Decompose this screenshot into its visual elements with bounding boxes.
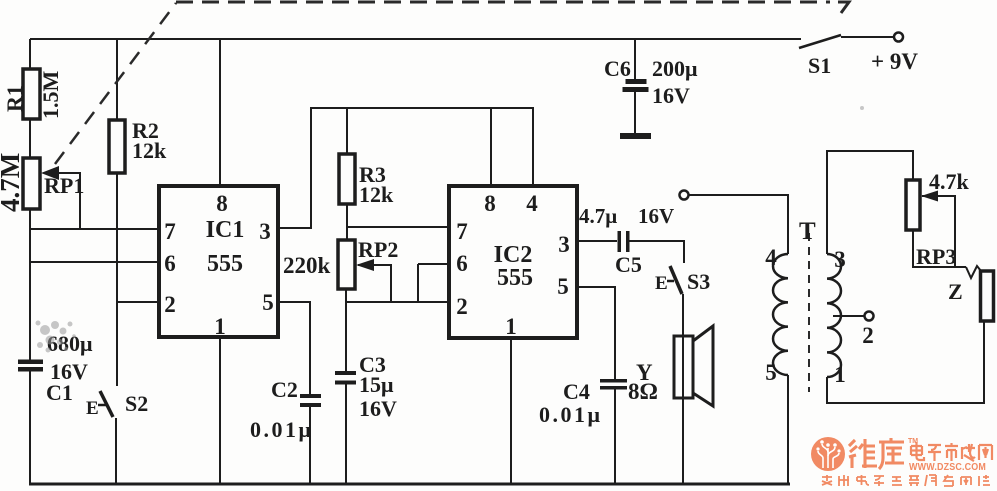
svg-text:5: 5 [557, 274, 569, 299]
svg-text:S3: S3 [687, 269, 710, 294]
svg-text:2: 2 [862, 323, 874, 348]
svg-text:12k: 12k [132, 138, 167, 163]
svg-text:680μ: 680μ [47, 331, 93, 356]
svg-text:C6: C6 [604, 56, 631, 81]
svg-text:C2: C2 [271, 377, 298, 402]
svg-text:TM: TM [908, 438, 918, 445]
svg-text:15μ: 15μ [359, 372, 394, 397]
svg-text:R1: R1 [2, 85, 27, 112]
svg-text:0.01μ: 0.01μ [539, 402, 602, 427]
svg-text:1.5M: 1.5M [38, 71, 63, 120]
svg-text:4: 4 [765, 245, 777, 270]
svg-text:0.01μ: 0.01μ [250, 417, 313, 442]
svg-text:3: 3 [259, 219, 271, 244]
svg-text:1: 1 [214, 314, 226, 339]
svg-text:6: 6 [164, 251, 176, 276]
svg-text:RP3: RP3 [916, 244, 956, 269]
svg-text:1: 1 [505, 314, 517, 339]
svg-text:3: 3 [834, 247, 846, 272]
svg-text:RP1: RP1 [44, 173, 84, 198]
svg-text:555: 555 [207, 251, 243, 277]
svg-text:S1: S1 [808, 53, 831, 78]
svg-text:T: T [799, 218, 816, 245]
svg-text:7: 7 [164, 219, 176, 244]
svg-text:3: 3 [558, 232, 570, 257]
svg-text:8: 8 [484, 191, 496, 216]
svg-text:+ 9V: + 9V [871, 49, 918, 74]
svg-text:C5: C5 [615, 252, 642, 277]
svg-text:C1: C1 [46, 380, 73, 405]
svg-text:16V: 16V [638, 204, 674, 228]
svg-text:2: 2 [164, 292, 176, 317]
svg-text:WWW.DZSC.COM: WWW.DZSC.COM [909, 461, 986, 473]
svg-text:200μ: 200μ [652, 56, 698, 81]
svg-text:4.7μ: 4.7μ [579, 204, 617, 228]
svg-text:555: 555 [497, 265, 533, 291]
svg-text:12k: 12k [359, 182, 394, 207]
svg-text:6: 6 [456, 251, 468, 276]
svg-text:C4: C4 [563, 379, 590, 404]
svg-text:E: E [86, 398, 99, 419]
svg-text:8Ω: 8Ω [628, 379, 658, 404]
svg-text:16V: 16V [359, 396, 397, 421]
svg-text:RP2: RP2 [358, 237, 398, 262]
svg-text:4: 4 [526, 191, 538, 216]
svg-text:5: 5 [262, 290, 274, 315]
svg-text:4.7M: 4.7M [0, 153, 25, 212]
svg-text:5: 5 [765, 360, 777, 385]
svg-text:S2: S2 [125, 391, 148, 416]
svg-text:16V: 16V [652, 83, 690, 108]
svg-text:220k: 220k [283, 253, 331, 278]
svg-text:4.7k: 4.7k [929, 169, 970, 194]
svg-text:7: 7 [456, 219, 468, 244]
svg-text:IC1: IC1 [206, 217, 245, 243]
svg-text:1: 1 [834, 362, 846, 387]
svg-text:E: E [655, 273, 668, 294]
svg-text:Z: Z [948, 279, 963, 304]
svg-text:8: 8 [216, 191, 228, 216]
svg-text:2: 2 [456, 294, 468, 319]
